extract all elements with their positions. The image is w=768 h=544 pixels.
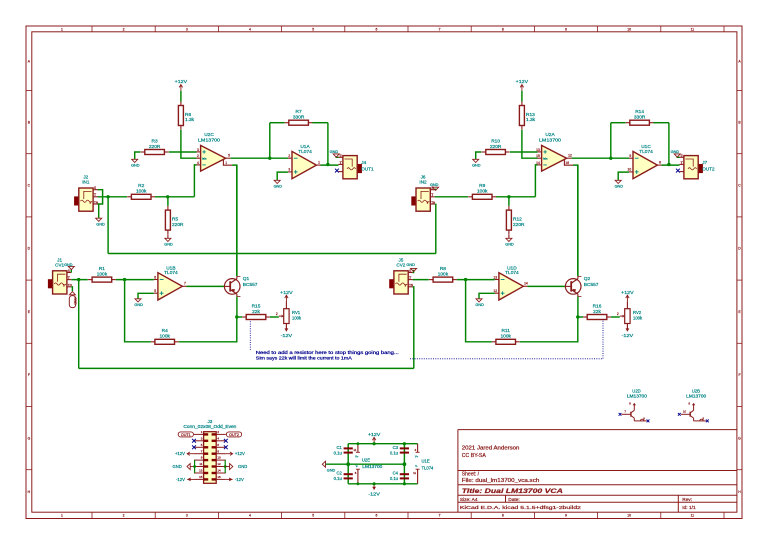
junction U1C out/R14: [667, 163, 670, 166]
power +12V at J3 pin 7: [175, 451, 194, 456]
svg-text:9: 9: [565, 514, 567, 518]
connector J5: [390, 257, 414, 294]
svg-text:9: 9: [629, 154, 631, 158]
resistor R6: [178, 101, 194, 129]
ground flag at J7 sleeve: [671, 150, 681, 157]
power -12V at RV2: [622, 325, 634, 338]
wire +12V to R13: [521, 91, 523, 102]
svg-text:GND: GND: [615, 185, 624, 189]
unused buffer U2D: [619, 388, 650, 422]
note leader to R16: [410, 319, 603, 359]
svg-text:5: 5: [312, 28, 314, 32]
op-amp U1D: [493, 265, 527, 300]
note text: [256, 350, 399, 360]
wire CV1 down: [78, 280, 80, 369]
wire R3 to U2C +in: [169, 151, 197, 153]
capacitor C1: [334, 445, 353, 456]
note leader to R15: [249, 321, 251, 350]
svg-text:R16: R16: [593, 303, 602, 309]
junction C4 bottom: [403, 482, 406, 485]
svg-text:7: 7: [439, 28, 441, 32]
wire up to U2A pin14: [535, 165, 537, 197]
svg-text:U1E: U1E: [422, 458, 430, 463]
svg-text:S: S: [68, 269, 70, 273]
svg-text:5: 5: [228, 154, 230, 158]
ground at R5: [164, 234, 173, 246]
svg-text:12: 12: [493, 289, 497, 293]
svg-text:GND: GND: [134, 303, 143, 307]
wire J3 gnd bracket right: [224, 460, 226, 473]
svg-text:100k: 100k: [477, 189, 488, 195]
wire U1D +in gnd: [479, 293, 495, 299]
svg-text:-12V: -12V: [368, 492, 380, 497]
svg-text:Sheet: /: Sheet: /: [462, 471, 480, 477]
svg-text:Date:: Date:: [508, 497, 519, 503]
wire R16 to RV2 wiper: [611, 316, 620, 318]
svg-text:22k: 22k: [252, 309, 260, 315]
svg-text:6: 6: [375, 514, 377, 518]
wire R10 gnd stub: [476, 152, 482, 159]
svg-text:100k: 100k: [97, 271, 108, 277]
resistor R11: [492, 328, 520, 344]
svg-text:+12V: +12V: [621, 290, 633, 295]
svg-text:15: 15: [199, 475, 203, 479]
svg-text:2: 2: [123, 514, 125, 518]
svg-text:10: 10: [627, 28, 631, 32]
op-amp U2C (OTA): [197, 132, 233, 171]
op-amp U1C: [628, 144, 662, 179]
junction +12V tap: [373, 442, 376, 445]
wire IN1 tip to R2: [98, 196, 128, 198]
svg-text:2021 Jared Anderson: 2021 Jared Anderson: [462, 445, 520, 451]
transistor Q2: [565, 276, 599, 297]
svg-text:R13: R13: [526, 112, 535, 118]
wire normal up to J5 TN: [413, 287, 414, 369]
power +12V at RV2: [621, 290, 633, 302]
capacitor C3: [390, 445, 409, 456]
svg-text:G: G: [738, 436, 741, 440]
svg-text:8: 8: [659, 161, 661, 165]
svg-text:7: 7: [184, 282, 186, 286]
wire U1A +in gnd: [277, 172, 288, 180]
wire IN1 normal run: [108, 253, 436, 255]
junction -12V tap: [373, 482, 376, 485]
svg-text:Sim says 22k will limit the cu: Sim says 22k will limit the current to 1…: [256, 355, 352, 360]
wire U1A out to J4: [321, 164, 339, 166]
svg-text:100k: 100k: [159, 334, 170, 340]
wire U1B out to Q1: [186, 285, 224, 287]
junction OTA2 out/R14: [609, 157, 612, 160]
power unit U2E: [353, 444, 383, 484]
svg-text:11: 11: [199, 462, 202, 466]
op-amp U1A: [288, 144, 321, 179]
svg-text:1: 1: [318, 161, 320, 165]
svg-text:F: F: [738, 373, 740, 377]
junction C1 mid: [346, 462, 350, 466]
svg-text:10: 10: [628, 168, 632, 172]
svg-text:S: S: [340, 154, 342, 158]
ground flag at J4 sleeve: [330, 150, 340, 157]
resistor R16: [583, 303, 611, 319]
svg-text:3: 3: [197, 148, 199, 152]
wire IN2 tip to R9: [435, 196, 468, 198]
svg-text:+12V: +12V: [280, 290, 292, 295]
svg-text:9: 9: [565, 28, 567, 32]
junction CV1/R1: [77, 278, 80, 281]
resistor R10: [482, 138, 510, 154]
wire R14 left: [611, 122, 626, 124]
wire +12V to R6: [180, 91, 182, 102]
svg-text:4: 4: [197, 161, 199, 165]
svg-text:TL074: TL074: [639, 149, 653, 155]
junction Q1 emitter/R15/R4: [235, 315, 238, 318]
svg-text:R9: R9: [479, 183, 485, 189]
wire CV1 normal run: [79, 367, 414, 369]
svg-text:16: 16: [217, 475, 221, 479]
svg-text:GND: GND: [73, 297, 77, 305]
svg-text:TN: TN: [68, 283, 72, 287]
ground flag at J6 sleeve: [430, 183, 439, 190]
wire normal up to J6 TN: [435, 204, 436, 253]
power unit U1E: [413, 444, 434, 484]
svg-text:330R: 330R: [293, 115, 305, 121]
connector J3: [183, 419, 237, 483]
svg-text:100k: 100k: [500, 334, 511, 340]
ground at U1A: [274, 180, 283, 188]
svg-text:BC557: BC557: [584, 282, 599, 288]
svg-text:S: S: [681, 154, 683, 158]
potentiometer RV1: [276, 302, 302, 331]
svg-text:TN: TN: [409, 283, 413, 287]
svg-text:G: G: [28, 436, 31, 440]
svg-text:8: 8: [502, 514, 504, 518]
svg-text:TN: TN: [94, 200, 98, 204]
wire R5 top: [167, 197, 169, 206]
ground at U1B: [134, 299, 143, 307]
svg-text:7: 7: [439, 514, 441, 518]
wire R13 to U2A pin15: [522, 130, 538, 158]
svg-text:LM13700: LM13700: [198, 138, 220, 144]
svg-text:GND: GND: [131, 164, 140, 168]
power -12V at RV1: [281, 325, 293, 338]
svg-text:R11: R11: [501, 328, 510, 334]
svg-text:1: 1: [225, 161, 227, 165]
ground at R3: [131, 159, 140, 167]
svg-text:LM13700: LM13700: [539, 138, 561, 144]
svg-text:GND: GND: [327, 468, 336, 472]
wire Q2 collector up: [577, 165, 579, 276]
wire U1B +in gnd: [138, 293, 154, 299]
svg-text:GND: GND: [475, 303, 484, 307]
wire C3 leads: [403, 444, 405, 465]
wire U2A iabc down: [573, 165, 578, 276]
connector J4: [339, 154, 374, 179]
junction OTA out/R7: [268, 157, 271, 160]
junction C3 mid: [403, 462, 407, 466]
svg-text:GND: GND: [406, 263, 415, 267]
wire U2C out: [231, 157, 288, 159]
wire Q1 emitter down: [236, 297, 238, 317]
ground at rails: [322, 461, 335, 472]
svg-text:R7: R7: [296, 109, 302, 115]
svg-text:Q1: Q1: [243, 276, 250, 282]
svg-text:V-: V-: [356, 464, 359, 468]
no-connect at J4 TN: [335, 169, 339, 173]
power -12V at rails: [368, 484, 380, 497]
svg-text:C1: C1: [336, 445, 342, 450]
svg-text:13: 13: [536, 148, 540, 152]
svg-text:U2A: U2A: [545, 132, 555, 138]
svg-text:CV2: CV2: [396, 262, 405, 267]
power +12V at RV1: [280, 290, 292, 302]
wire Q1 emitter to R15: [237, 316, 242, 318]
power +12V at R13: [516, 79, 528, 91]
no-connect J3 pin 6: [224, 445, 228, 449]
resistor R14: [626, 109, 654, 125]
svg-text:C3: C3: [393, 445, 399, 450]
wire R7 right leg: [327, 123, 329, 165]
svg-text:14: 14: [217, 469, 221, 473]
resistor R2: [127, 183, 155, 199]
svg-text:R3: R3: [152, 138, 158, 144]
resistor R5: [165, 206, 184, 234]
svg-text:10: 10: [627, 514, 631, 518]
svg-text:12: 12: [568, 154, 572, 158]
svg-text:R6: R6: [185, 112, 191, 118]
wire J7 sleeve: [677, 156, 679, 159]
svg-text:V-: V-: [415, 464, 418, 468]
svg-text:11: 11: [691, 514, 695, 518]
svg-text:100k: 100k: [136, 189, 147, 195]
svg-text:3: 3: [288, 168, 290, 172]
wire CV1 to R1: [71, 279, 88, 281]
ground at J3 right: [225, 464, 247, 470]
junction J3 gnd left: [193, 465, 196, 468]
svg-text:220R: 220R: [513, 222, 525, 228]
transistor Q1: [224, 276, 258, 297]
svg-text:TL074: TL074: [298, 149, 312, 155]
wire Q2 emitter down: [577, 297, 579, 317]
ground at J3 left: [172, 464, 194, 470]
wire R10 to U2A +in: [510, 151, 538, 153]
svg-text:TL074: TL074: [422, 466, 435, 471]
svg-text:2: 2: [123, 28, 125, 32]
svg-text:R8: R8: [440, 266, 446, 272]
svg-text:GND: GND: [238, 464, 247, 469]
wire J4 sleeve: [336, 156, 338, 159]
wire J1 TN gnd: [71, 287, 72, 292]
no-connect J3 pin 3: [192, 439, 196, 443]
svg-text:1.3k: 1.3k: [526, 117, 536, 123]
svg-text:6: 6: [375, 28, 377, 32]
resistor R8: [429, 266, 457, 282]
junction R9/R12: [507, 195, 510, 198]
svg-text:2: 2: [276, 312, 278, 316]
resistor R13: [519, 101, 535, 129]
svg-text:0.1u: 0.1u: [390, 476, 399, 481]
svg-text:0.1u: 0.1u: [334, 476, 343, 481]
global label OUT1: [178, 432, 193, 437]
svg-text:OUT2: OUT2: [702, 166, 715, 171]
wire -12V rail: [348, 483, 417, 485]
svg-text:C4: C4: [393, 471, 399, 476]
svg-text:1: 1: [61, 28, 63, 32]
svg-text:S: S: [94, 186, 96, 190]
svg-text:5: 5: [154, 289, 156, 293]
svg-text:V+: V+: [415, 455, 419, 459]
svg-text:+12V: +12V: [516, 79, 528, 84]
svg-text:Size: A4: Size: A4: [460, 497, 478, 503]
resistor R7: [285, 109, 313, 125]
svg-text:IN1: IN1: [82, 180, 90, 185]
svg-text:100k: 100k: [633, 315, 643, 320]
svg-text:GND: GND: [505, 243, 514, 247]
svg-text:+12V: +12V: [175, 451, 185, 456]
global label OUT2: [226, 432, 241, 437]
wire R8 to U1D: [457, 279, 495, 281]
svg-text:100k: 100k: [292, 315, 302, 320]
wire R7 right: [312, 122, 328, 124]
wire R6 to U2C pin2: [181, 130, 197, 158]
svg-text:GND: GND: [472, 164, 481, 168]
capacitor C4: [390, 471, 409, 482]
svg-text:OUT1: OUT1: [361, 166, 374, 171]
svg-text:11: 11: [413, 471, 416, 475]
svg-text:R15: R15: [252, 303, 261, 309]
svg-text:+12V: +12V: [235, 451, 245, 456]
wire J5 sleeve up: [413, 270, 414, 273]
wire R12 top: [508, 197, 510, 206]
potentiometer RV2: [617, 302, 643, 331]
svg-text:R12: R12: [513, 216, 522, 222]
wire R9 to OTA -in: [496, 196, 535, 198]
power -12V at J3 pin 16: [226, 477, 244, 482]
resistor R12: [506, 206, 525, 234]
svg-text:13: 13: [493, 275, 497, 279]
svg-text:CC BY-SA: CC BY-SA: [462, 453, 487, 459]
wire IN1 down: [107, 197, 109, 254]
no-connect J3 pin 5: [192, 445, 196, 449]
wire R14 right leg: [668, 123, 670, 165]
svg-text:+12V: +12V: [368, 432, 380, 437]
svg-text:S: S: [409, 269, 411, 273]
wire R11 right: [520, 317, 578, 342]
wire R7 left: [270, 122, 285, 124]
svg-text:22k: 22k: [593, 309, 601, 315]
wire C4 leads: [403, 464, 405, 484]
wire U1D -in drop: [466, 280, 492, 342]
wire GND rail: [326, 463, 405, 465]
wire R7 left leg: [269, 123, 271, 159]
svg-text:LM13700: LM13700: [362, 464, 383, 469]
svg-text:2: 2: [288, 154, 290, 158]
svg-text:-12V: -12V: [281, 333, 293, 338]
svg-text:13: 13: [199, 469, 203, 473]
svg-text:11: 11: [691, 28, 695, 32]
svg-text:10: 10: [683, 410, 687, 414]
wire U1C out to J7: [662, 164, 680, 166]
svg-text:-12V: -12V: [235, 477, 244, 482]
svg-text:8: 8: [502, 28, 504, 32]
svg-text:Q2: Q2: [584, 276, 591, 282]
op-amp U1B: [154, 265, 187, 300]
wire +12V rail stub: [373, 443, 375, 445]
svg-text:Iabc: Iabc: [543, 157, 548, 160]
junction J3 gnd right: [224, 465, 227, 468]
svg-text:R10: R10: [491, 138, 500, 144]
svg-text:Title: Dual LM13700 VCA: Title: Dual LM13700 VCA: [462, 488, 564, 495]
wire R14 right: [653, 122, 669, 124]
svg-text:J7: J7: [702, 160, 707, 165]
svg-text:1: 1: [61, 514, 63, 518]
svg-text:LM13700: LM13700: [686, 393, 707, 398]
svg-text:4: 4: [249, 514, 251, 518]
junction R2/R5: [166, 195, 169, 198]
resistor R15: [242, 303, 270, 319]
svg-text:100k: 100k: [438, 271, 449, 277]
wire C1 leads: [347, 444, 349, 465]
wire Q2 emitter to R16: [578, 316, 583, 318]
resistor R9: [468, 183, 496, 199]
ground flag at J5 sleeve: [406, 263, 416, 271]
power +12V at J3 pin 8: [226, 451, 245, 456]
wire U2C iabc down: [232, 165, 237, 276]
ground at R12: [505, 234, 514, 246]
wire U1B -in drop: [125, 280, 151, 342]
svg-text:10: 10: [217, 456, 221, 460]
ground at U1D: [475, 299, 484, 307]
junction U2E bottom: [357, 482, 360, 485]
wire +12V rail: [348, 443, 417, 445]
op-amp U2A (OTA): [536, 132, 573, 171]
svg-text:+12V: +12V: [175, 79, 187, 84]
ground flag at J1 sleeve: [64, 263, 74, 269]
svg-text:C2: C2: [336, 471, 342, 476]
svg-text:220R: 220R: [149, 144, 161, 150]
wire J6 sleeve up: [434, 189, 437, 190]
svg-text:Iabc: Iabc: [202, 157, 207, 160]
power -12V at J3 pin 15: [176, 477, 194, 482]
svg-text:GND: GND: [430, 183, 439, 187]
svg-text:2: 2: [197, 154, 199, 158]
wire Q1 collector up: [236, 165, 238, 276]
wire U2A out: [572, 157, 629, 159]
junction R8/U1D/R11: [464, 278, 467, 281]
svg-text:16: 16: [565, 161, 569, 165]
svg-text:GND: GND: [164, 243, 173, 247]
unused buffer U2B: [678, 388, 709, 422]
svg-text:3: 3: [186, 28, 188, 32]
svg-text:14: 14: [524, 282, 528, 286]
svg-text:BC557: BC557: [243, 282, 258, 288]
svg-text:12: 12: [217, 462, 221, 466]
resistor R4: [151, 328, 179, 344]
svg-text:File: dual_lm13700_vca.sch: File: dual_lm13700_vca.sch: [462, 478, 540, 484]
ground at J2: [96, 218, 105, 226]
svg-text:IN2: IN2: [419, 180, 427, 185]
svg-text:330R: 330R: [634, 115, 646, 121]
wire R3 gnd stub: [135, 152, 141, 159]
svg-text:LM13700: LM13700: [627, 393, 648, 398]
svg-text:4: 4: [249, 28, 251, 32]
junction R1/U1B/R4: [123, 278, 126, 281]
svg-text:R1: R1: [99, 266, 105, 272]
resistor R1: [88, 266, 116, 282]
svg-text:0.1u: 0.1u: [390, 450, 399, 455]
svg-text:-12V: -12V: [176, 477, 185, 482]
svg-text:J4: J4: [361, 160, 366, 165]
svg-text:R5: R5: [172, 216, 178, 222]
